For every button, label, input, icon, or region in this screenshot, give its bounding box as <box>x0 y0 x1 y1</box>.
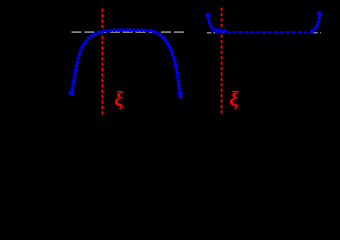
blue dashed flat segment, right panel <box>215 31 314 33</box>
gray dashed asymptote line, right panel <box>207 32 216 34</box>
xi label, right panel <box>229 89 238 110</box>
blue data curve, right panel (bathtub branches) <box>206 11 322 33</box>
xi label, left panel <box>114 89 123 110</box>
gray dashed asymptote line, left panel <box>72 31 185 33</box>
red dashed vertical line at xi, left panel <box>101 9 103 116</box>
blue data curve, left panel (flat-top dome) <box>69 28 183 99</box>
red dashed vertical line at xi, right panel <box>221 8 223 116</box>
